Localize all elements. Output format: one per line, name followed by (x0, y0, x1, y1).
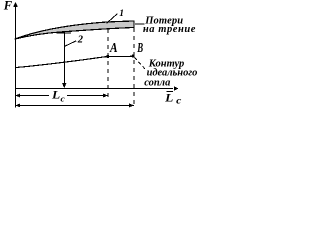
svg-text:A: A (109, 41, 117, 56)
svg-text:c: c (61, 93, 65, 103)
svg-text:c: c (176, 96, 181, 106)
svg-text:1: 1 (119, 9, 124, 19)
svg-text:сопла: сопла (144, 78, 170, 89)
svg-text:L: L (164, 90, 173, 104)
svg-text:L: L (51, 88, 60, 102)
svg-text:B: B (137, 41, 144, 56)
svg-text:на трение: на трение (143, 24, 196, 35)
svg-text:2: 2 (77, 35, 84, 46)
svg-text:F: F (3, 0, 13, 12)
